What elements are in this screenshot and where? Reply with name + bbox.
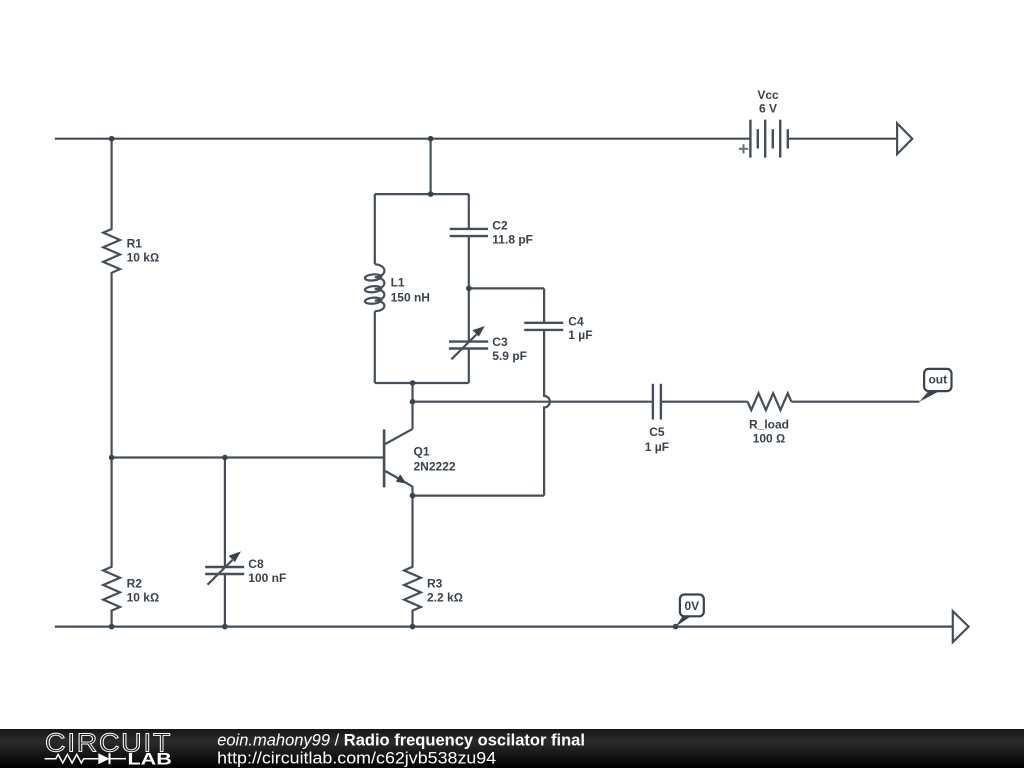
- svg-text:R2: R2: [127, 577, 143, 591]
- capacitor C5: [653, 384, 661, 420]
- node 0V flag: [676, 595, 704, 627]
- wire top rail: [55, 138, 751, 140]
- resistor R_load: [748, 393, 792, 410]
- wire C5 to R_load: [661, 401, 748, 403]
- svg-text:1 µF: 1 µF: [568, 328, 592, 342]
- node out flag: [920, 369, 952, 402]
- wire top rail to LC tank top: [430, 139, 432, 194]
- svg-text:C3: C3: [492, 335, 508, 349]
- svg-text:1 µF: 1 µF: [645, 440, 669, 454]
- wire LC tank top: [375, 193, 469, 195]
- wire collector out to C5: [413, 401, 653, 403]
- bottom rail 0V: [55, 625, 953, 627]
- svg-text:11.8 pF: 11.8 pF: [492, 233, 533, 247]
- svg-text:100 Ω: 100 Ω: [753, 432, 786, 446]
- svg-text:10 kΩ: 10 kΩ: [127, 250, 160, 264]
- junction bottom rail / 0V flag: [673, 624, 679, 630]
- svg-text:http://circuitlab.com/c62jvb53: http://circuitlab.com/c62jvb538zu94: [217, 750, 496, 768]
- junction base wire / R1-R2: [109, 455, 115, 461]
- wire C2/C3 node to C4: [469, 287, 544, 289]
- footer logo resistor-diode glyph: [45, 753, 126, 764]
- svg-text:2N2222: 2N2222: [414, 459, 456, 473]
- resistor R1: [103, 139, 120, 458]
- junction bottom rail / C8: [222, 624, 228, 630]
- junction C2-C3 node to C4: [466, 286, 472, 292]
- resistor R2: [103, 458, 120, 627]
- junction bottom rail / R3: [410, 624, 416, 630]
- svg-text:0V: 0V: [684, 599, 699, 613]
- svg-text:R_load: R_load: [749, 417, 789, 431]
- battery plus sign: [739, 144, 748, 153]
- capacitor C4: [543, 288, 545, 322]
- junction top rail / LC tank feed: [428, 136, 434, 142]
- svg-text:C4: C4: [568, 315, 584, 329]
- svg-text:C5: C5: [649, 425, 665, 439]
- svg-text:10 kΩ: 10 kΩ: [127, 590, 160, 604]
- terminal arrow bottom right: [953, 611, 969, 642]
- svg-text:2.2 kΩ: 2.2 kΩ: [427, 590, 463, 604]
- svg-text:100 nF: 100 nF: [248, 571, 286, 585]
- wire base rail: [112, 456, 385, 458]
- footer bar: [0, 729, 1024, 768]
- svg-text:C2: C2: [492, 218, 508, 232]
- junction emitter / C4 return: [410, 493, 416, 499]
- terminal arrow top right: [897, 123, 912, 154]
- capacitor C8 (variable): [224, 458, 226, 568]
- junction LC tank bottom: [410, 380, 416, 386]
- junction bottom rail / R2: [109, 624, 115, 630]
- junction top rail / R1: [109, 136, 115, 142]
- svg-text:5.9 pF: 5.9 pF: [492, 349, 527, 363]
- capacitor C3 (variable): [468, 349, 470, 384]
- svg-text:out: out: [928, 373, 947, 387]
- transistor Q1 2N2222: [411, 383, 413, 429]
- svg-text:R1: R1: [127, 236, 143, 250]
- svg-text:C8: C8: [248, 557, 264, 571]
- wire C4 down with hop over output wire: [544, 330, 550, 496]
- wire L1 top lead: [374, 194, 376, 264]
- inductor L1: [375, 264, 385, 311]
- wire LC tank bottom: [375, 382, 469, 384]
- svg-text:Vcc: Vcc: [757, 88, 779, 102]
- wire L1 bottom lead: [374, 311, 376, 383]
- svg-text:LAB: LAB: [128, 750, 173, 768]
- svg-text:150 nH: 150 nH: [391, 291, 430, 305]
- resistor R3: [404, 496, 421, 627]
- battery V1 Vcc plates: [750, 120, 787, 158]
- wire battery to arrow: [788, 138, 897, 140]
- svg-text:eoin.mahony99 / Radio frequenc: eoin.mahony99 / Radio frequency oscilato…: [217, 731, 585, 749]
- junction base wire / C8: [222, 455, 228, 461]
- capacitor C2: [468, 194, 470, 229]
- svg-text:R3: R3: [427, 577, 443, 591]
- junction collector / output wire: [410, 399, 416, 405]
- wire C4 bottom to emitter: [413, 495, 545, 497]
- svg-text:Q1: Q1: [414, 444, 430, 458]
- wire R_load to out flag: [791, 401, 919, 403]
- junction LC tank top: [428, 191, 434, 197]
- svg-text:L1: L1: [391, 275, 405, 289]
- svg-text:6 V: 6 V: [759, 101, 777, 115]
